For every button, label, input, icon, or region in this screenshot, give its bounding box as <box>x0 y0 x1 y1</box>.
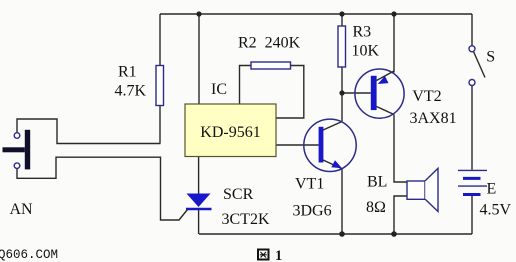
svg-text:4.7K: 4.7K <box>115 83 147 100</box>
svg-text:KD-9561: KD-9561 <box>200 124 260 141</box>
svg-text:AN: AN <box>10 201 34 218</box>
svg-text:Q606.COM: Q606.COM <box>0 248 58 262</box>
svg-text:VT2: VT2 <box>412 88 441 105</box>
svg-text:3DG6: 3DG6 <box>293 203 332 220</box>
svg-text:10K: 10K <box>352 43 380 60</box>
svg-text:S: S <box>486 49 495 66</box>
svg-text:4.5V: 4.5V <box>480 202 512 219</box>
svg-text:BL: BL <box>367 174 387 191</box>
svg-text:VT1: VT1 <box>295 176 324 193</box>
svg-text:SCR: SCR <box>223 186 254 203</box>
svg-text:R3: R3 <box>353 24 372 41</box>
svg-text:R1: R1 <box>118 64 137 81</box>
svg-text:E: E <box>487 181 497 198</box>
svg-text:3CT2K: 3CT2K <box>222 211 270 228</box>
svg-text:3AX81: 3AX81 <box>410 110 457 127</box>
svg-text:IC: IC <box>211 81 227 98</box>
svg-text:R2 240K: R2 240K <box>238 35 301 52</box>
svg-text:8Ω: 8Ω <box>366 199 386 216</box>
svg-text:1: 1 <box>275 248 282 262</box>
